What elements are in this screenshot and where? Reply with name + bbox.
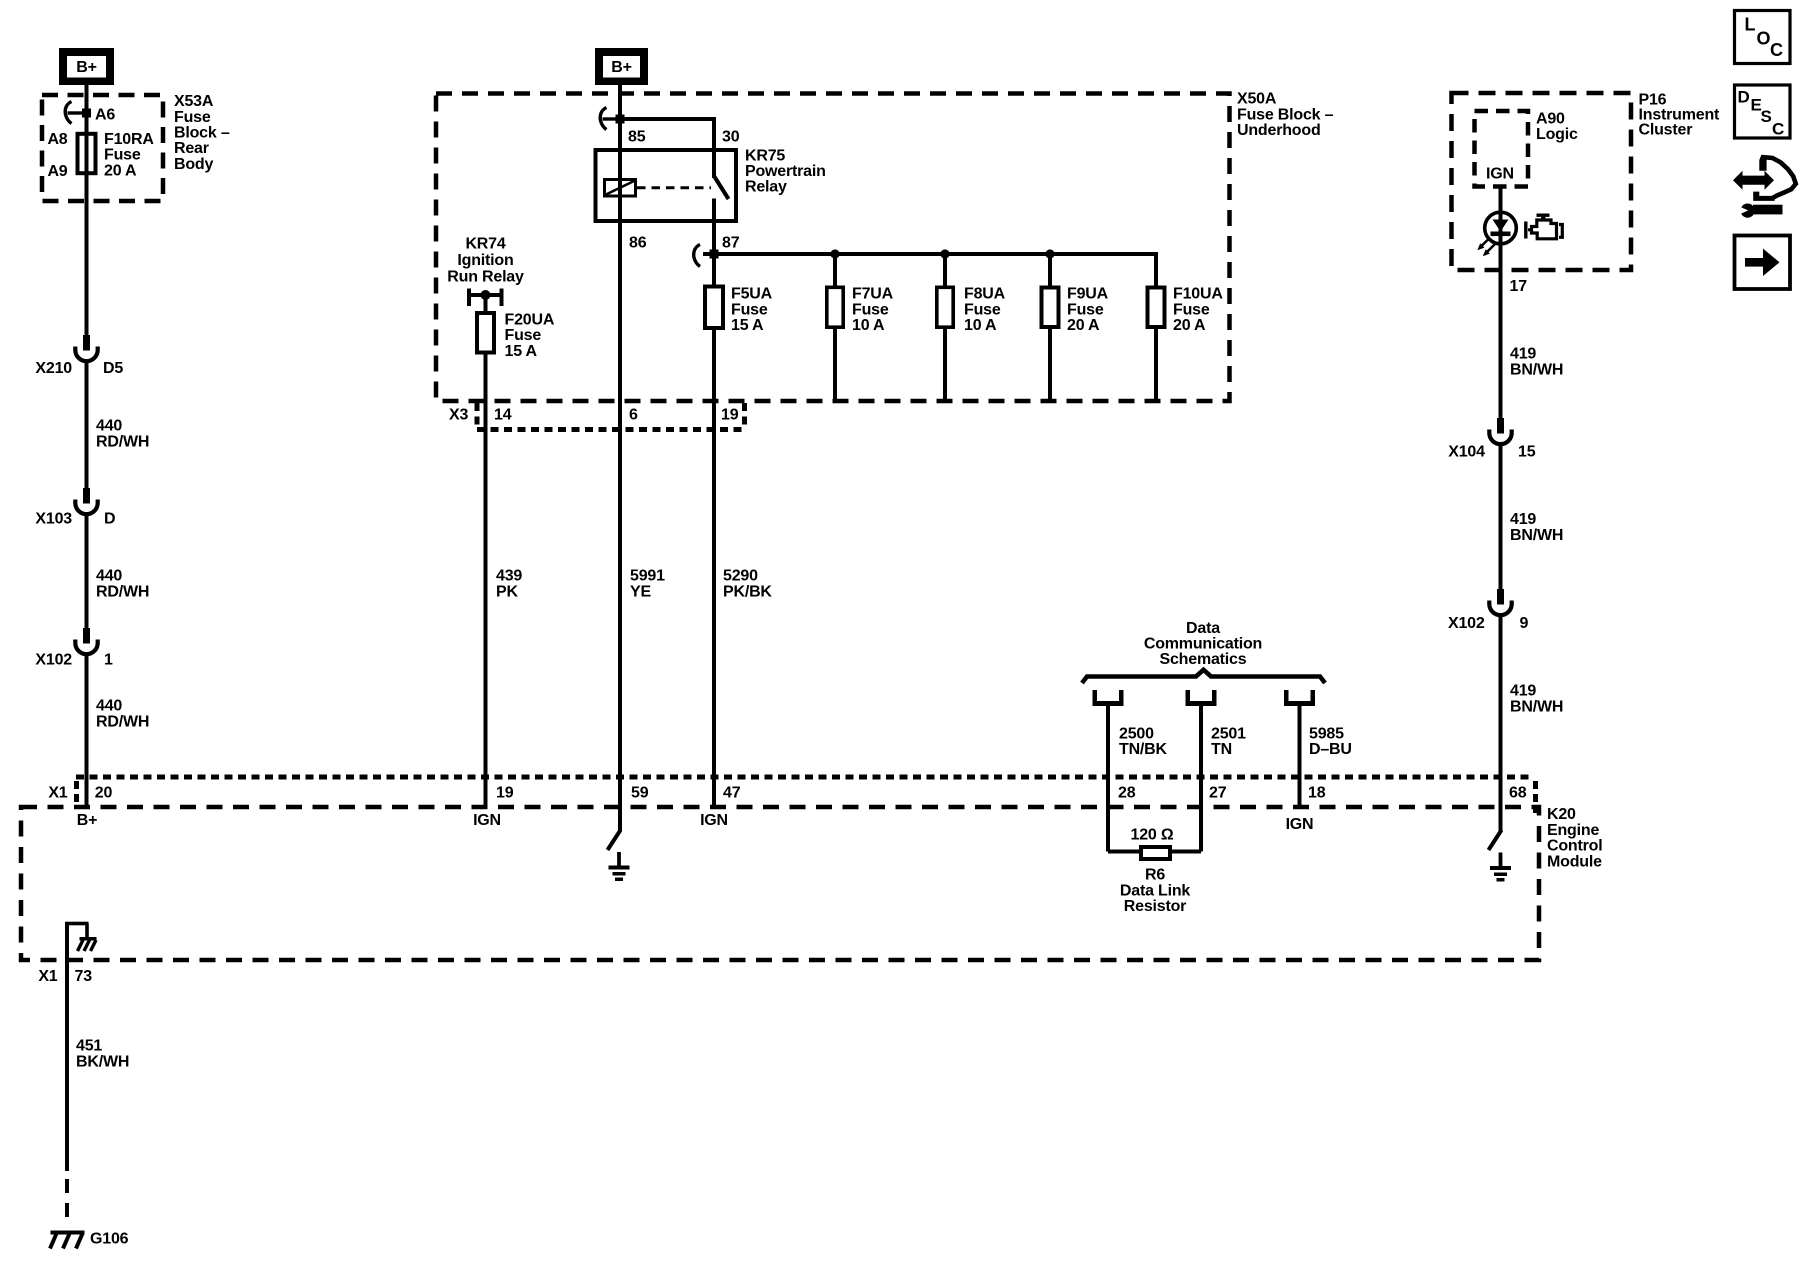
svg-text:86: 86 [629, 235, 647, 252]
fuse F5UA symbol [705, 287, 723, 329]
wire IGN to indicator LED [1499, 187, 1503, 271]
svg-text:Cluster: Cluster [1639, 122, 1693, 139]
svg-text:Fuse: Fuse [174, 109, 211, 126]
connector X3 left tick [475, 403, 480, 428]
ground (pin 68 internal) [1499, 853, 1503, 867]
wire bus to fuse F5UA [712, 254, 716, 285]
junction dot bus F9UA [1045, 249, 1054, 258]
svg-text:Fuse: Fuse [731, 301, 768, 318]
svg-text:5985: 5985 [1309, 725, 1344, 742]
svg-text:15 A: 15 A [505, 343, 538, 360]
svg-text:A8: A8 [47, 131, 67, 148]
fuse block X50A dashed box [436, 94, 1230, 402]
svg-text:D: D [104, 511, 115, 528]
svg-text:440: 440 [96, 698, 122, 715]
svg-text:Resistor: Resistor [1124, 898, 1186, 915]
wire bus to fuse F8UA [943, 254, 947, 286]
svg-text:A9: A9 [47, 163, 67, 180]
svg-text:L: L [1745, 15, 1756, 35]
svg-text:R6: R6 [1145, 867, 1165, 884]
svg-text:20 A: 20 A [104, 162, 137, 179]
svg-text:B+: B+ [76, 59, 97, 76]
fuse F10RA symbol [78, 134, 96, 173]
svg-text:YE: YE [630, 583, 651, 600]
connector X3 right tick [742, 403, 747, 428]
svg-text:F7UA: F7UA [852, 286, 894, 303]
LED diode triangle [1493, 220, 1509, 232]
svg-text:Ignition: Ignition [457, 252, 513, 269]
svg-text:439: 439 [496, 568, 522, 585]
wire bus to fuse F9UA [1048, 254, 1052, 286]
svg-text:59: 59 [631, 785, 649, 802]
pin 73 internal ground wire [65, 923, 69, 960]
svg-text:17: 17 [1510, 278, 1528, 295]
wire bus to fuse F7UA [833, 254, 837, 286]
wire 451 dashed segment [65, 1179, 69, 1217]
svg-text:X102: X102 [1448, 615, 1485, 632]
junction dot bus F8UA [940, 249, 949, 258]
wire 419 BN/WH segment 1 [1499, 270, 1503, 418]
splice X103 [83, 488, 90, 504]
LED light arrows [1481, 238, 1491, 248]
svg-text:Fuse: Fuse [505, 327, 542, 344]
svg-text:Block –: Block – [174, 125, 230, 142]
relay KR75 contact blade [714, 176, 729, 199]
splice X102 (left) [83, 628, 90, 644]
svg-text:RD/WH: RD/WH [96, 713, 149, 730]
svg-text:5991: 5991 [630, 568, 665, 585]
svg-text:5290: 5290 [723, 568, 758, 585]
svg-text:27: 27 [1209, 785, 1227, 802]
svg-text:X3: X3 [449, 407, 468, 424]
svg-text:Fuse: Fuse [852, 301, 889, 318]
svg-text:419: 419 [1510, 683, 1536, 700]
wire B+ to fuse block X53A [85, 84, 89, 95]
wire relay 87 to fuse bus [712, 199, 716, 255]
svg-text:85: 85 [628, 128, 646, 145]
wire 5290 PK/BK [712, 429, 716, 807]
wire pin 28 to resistor R6 [1106, 807, 1110, 852]
svg-text:F5UA: F5UA [731, 286, 773, 303]
svg-text:47: 47 [723, 785, 741, 802]
fuse supply bus from relay 87 [703, 252, 1158, 256]
svg-text:A6: A6 [95, 107, 115, 124]
svg-text:Engine: Engine [1547, 822, 1599, 839]
chassis ground (pin 73 internal) [80, 937, 97, 941]
svg-text:X102: X102 [35, 652, 72, 669]
svg-text:Data Link: Data Link [1120, 882, 1191, 899]
svg-text:6: 6 [629, 407, 638, 424]
svg-text:15: 15 [1518, 443, 1536, 460]
svg-text:BK/WH: BK/WH [76, 1053, 129, 1070]
svg-text:F9UA: F9UA [1067, 286, 1109, 303]
wire F20UA down to X3 pin 14 [484, 354, 488, 429]
svg-text:73: 73 [75, 968, 93, 985]
junction dot A6 [82, 109, 91, 118]
svg-text:10 A: 10 A [852, 317, 885, 334]
svg-text:Data: Data [1186, 620, 1220, 637]
fuse F9UA symbol [1042, 288, 1059, 328]
svg-text:20: 20 [95, 785, 113, 802]
svg-text:419: 419 [1510, 511, 1536, 528]
wire 440 RD/WH segment 1 [85, 201, 89, 335]
LED cathode bar [1491, 232, 1511, 237]
power feed B+ (battery, middle) [595, 48, 648, 85]
svg-text:K20: K20 [1547, 806, 1576, 823]
svg-text:Fuse: Fuse [964, 301, 1001, 318]
splice X210 [83, 335, 90, 351]
svg-text:30: 30 [722, 128, 740, 145]
svg-text:X53A: X53A [174, 93, 214, 110]
svg-text:X50A: X50A [1237, 91, 1277, 108]
svg-text:20 A: 20 A [1173, 317, 1206, 334]
wire KR74 to fuse F20UA [484, 295, 488, 312]
crimp hook at 87 bus [694, 245, 700, 267]
svg-text:D5: D5 [103, 360, 123, 377]
svg-text:IGN: IGN [1286, 816, 1314, 833]
svg-text:X1: X1 [48, 785, 67, 802]
svg-text:F10UA: F10UA [1173, 286, 1223, 303]
svg-text:440: 440 [96, 418, 122, 435]
ground G106 chassis symbol [51, 1231, 85, 1235]
wire 2501 TN [1199, 706, 1203, 807]
svg-text:Control: Control [1547, 838, 1602, 855]
wire bus corner to fuse F10UA [1154, 254, 1158, 286]
connector X3 dotted line [477, 427, 747, 432]
svg-text:PK/BK: PK/BK [723, 583, 772, 600]
wire F7UA to block edge [833, 329, 837, 402]
svg-text:KR75: KR75 [745, 147, 785, 164]
wire 451 BK/WH [65, 960, 69, 1171]
svg-text:28: 28 [1118, 785, 1136, 802]
svg-text:TN/BK: TN/BK [1119, 741, 1168, 758]
crimp hook at relay 85 junction [600, 108, 606, 130]
svg-text:19: 19 [496, 785, 514, 802]
svg-text:X210: X210 [35, 360, 72, 377]
svg-text:10 A: 10 A [964, 317, 997, 334]
svg-text:F8UA: F8UA [964, 286, 1006, 303]
data communication brace [1082, 670, 1325, 683]
svg-text:1: 1 [104, 652, 113, 669]
svg-text:Schematics: Schematics [1160, 651, 1247, 668]
crimp hook at terminal A6 [65, 102, 71, 124]
svg-text:X1: X1 [38, 968, 57, 985]
icon navigate/diagnose (arrows and wrench) [1733, 171, 1774, 190]
svg-text:O: O [1757, 28, 1771, 48]
svg-text:Communication: Communication [1144, 636, 1262, 653]
relay KR74 contact symbol [467, 289, 471, 307]
power feed B+ (battery, left) [59, 48, 114, 85]
connector X1 dotted line [76, 775, 1534, 780]
fuse F7UA symbol [827, 287, 843, 327]
svg-text:451: 451 [76, 1038, 102, 1055]
connector X1 right tick [1533, 781, 1538, 813]
logic module A90 dashed box [1475, 111, 1529, 187]
fuse F20UA symbol [477, 313, 494, 353]
indicator LED circle [1485, 212, 1517, 244]
wire inside X53A (through fuse F10RA) [85, 95, 89, 201]
resistor R6 (120 ohm) [1141, 847, 1170, 859]
svg-text:KR74: KR74 [465, 236, 505, 253]
svg-text:RD/WH: RD/WH [96, 433, 149, 450]
svg-text:19: 19 [721, 407, 739, 424]
svg-text:440: 440 [96, 568, 122, 585]
svg-text:D–BU: D–BU [1309, 741, 1352, 758]
svg-text:9: 9 [1520, 615, 1529, 632]
svg-text:PK: PK [496, 583, 518, 600]
wire 440 RD/WH segment 2 [85, 361, 89, 488]
svg-text:20 A: 20 A [1067, 317, 1100, 334]
svg-text:419: 419 [1510, 346, 1536, 363]
connector X1 left tick [74, 781, 79, 805]
svg-text:Body: Body [174, 156, 214, 173]
svg-text:Fuse: Fuse [104, 147, 141, 164]
svg-text:Powertrain: Powertrain [745, 163, 826, 180]
wire 5991 YE [618, 223, 622, 807]
svg-text:Run Relay: Run Relay [447, 269, 524, 286]
splice X102 (right) [1497, 589, 1504, 605]
wire F5UA down to X3 pin 19 [712, 330, 716, 430]
pin 68 internal switch to ground [1499, 807, 1503, 831]
svg-text:RD/WH: RD/WH [96, 583, 149, 600]
junction dot at 85 [616, 115, 625, 124]
engine (MIL) icon [1537, 214, 1550, 217]
svg-text:D: D [1738, 87, 1750, 106]
wire B+ to relay coil (pin 85) [618, 84, 622, 223]
svg-text:C: C [1770, 40, 1783, 60]
pin 59 internal switch to ground [618, 807, 622, 831]
svg-text:BN/WH: BN/WH [1510, 361, 1563, 378]
wire 419 BN/WH segment 3 [1499, 615, 1503, 807]
svg-text:S: S [1761, 107, 1772, 126]
relay KR75 box [596, 150, 737, 221]
svg-text:15 A: 15 A [731, 317, 764, 334]
svg-text:87: 87 [722, 235, 740, 252]
wire F8UA to block edge [943, 329, 947, 402]
wire to relay pin 30 [620, 117, 716, 121]
svg-text:B+: B+ [611, 59, 632, 76]
svg-text:F10RA: F10RA [104, 131, 154, 148]
svg-text:BN/WH: BN/WH [1510, 698, 1563, 715]
off-page connector (5985) [1284, 690, 1289, 706]
ground (pin 59 internal) [617, 852, 621, 866]
wire F9UA to block edge [1048, 329, 1052, 402]
wire 2500 TN/BK [1106, 706, 1110, 807]
svg-text:Fuse: Fuse [1173, 301, 1210, 318]
icon box DESC [1735, 85, 1791, 138]
svg-text:G106: G106 [90, 1231, 129, 1248]
svg-text:TN: TN [1211, 741, 1232, 758]
junction dot bus F7UA [830, 249, 839, 258]
relay KR75 coil [605, 180, 636, 197]
svg-text:68: 68 [1509, 785, 1527, 802]
wire 5985 D-BU [1298, 706, 1302, 807]
wire 419 BN/WH segment 2 [1499, 444, 1503, 589]
svg-text:Fuse Block –: Fuse Block – [1237, 106, 1334, 123]
svg-text:14: 14 [494, 407, 512, 424]
svg-text:B+: B+ [77, 812, 98, 829]
fuse F8UA symbol [937, 287, 953, 327]
svg-text:Fuse: Fuse [1067, 301, 1104, 318]
svg-text:2500: 2500 [1119, 725, 1154, 742]
fuse block X53A dashed box [42, 95, 163, 201]
wire F10UA to block edge [1154, 329, 1158, 402]
svg-text:C: C [1772, 120, 1784, 139]
icon box LOC [1735, 11, 1791, 64]
svg-text:18: 18 [1308, 785, 1326, 802]
relay coil-contact dashed link [637, 186, 711, 189]
svg-text:Module: Module [1547, 853, 1602, 870]
wire 439 PK [484, 429, 488, 807]
wire pin 27 to resistor R6 [1199, 807, 1203, 852]
svg-text:IGN: IGN [1486, 166, 1514, 183]
svg-text:BN/WH: BN/WH [1510, 527, 1563, 544]
engine control module K20 dashed box [21, 807, 1539, 960]
svg-text:Logic: Logic [1536, 126, 1578, 143]
wire 440 RD/WH segment 4 [85, 654, 89, 807]
svg-text:IGN: IGN [700, 812, 728, 829]
svg-text:Relay: Relay [745, 179, 787, 196]
svg-text:IGN: IGN [473, 812, 501, 829]
off-page connector (2500) [1093, 690, 1098, 706]
svg-text:X103: X103 [35, 511, 72, 528]
svg-text:X104: X104 [1448, 443, 1485, 460]
svg-text:F20UA: F20UA [505, 312, 555, 329]
svg-text:120 Ω: 120 Ω [1131, 827, 1174, 844]
instrument cluster P16 dashed box [1452, 93, 1632, 270]
svg-text:2501: 2501 [1211, 725, 1246, 742]
svg-text:Rear: Rear [174, 140, 209, 157]
junction dot at 87 bus [710, 250, 719, 259]
icon box forward arrow [1735, 236, 1791, 290]
off-page connector (2501) [1186, 690, 1191, 706]
wire 440 RD/WH segment 3 [85, 514, 89, 628]
splice X104 [1497, 418, 1504, 434]
svg-text:Underhood: Underhood [1237, 122, 1321, 139]
fuse F10UA symbol [1148, 288, 1165, 328]
